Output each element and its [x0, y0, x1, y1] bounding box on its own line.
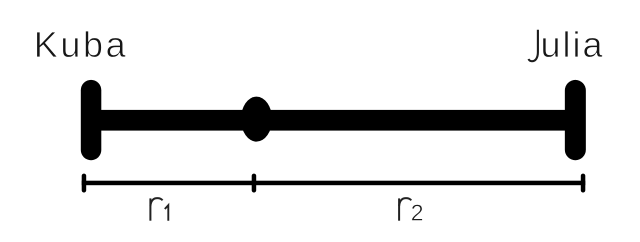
left tick: [82, 174, 87, 193]
label r1 subscript 1: [165, 205, 169, 221]
label r1: [150, 198, 162, 221]
right end cap: [565, 80, 586, 160]
svg-text:Kuba: Kuba: [34, 24, 127, 65]
label Julia (right mass name): [529, 30, 538, 61]
middle tick (pivot position): [252, 174, 257, 193]
right tick: [581, 174, 586, 193]
lever bar: [91, 110, 575, 131]
pivot ellipse: [241, 97, 272, 142]
svg-text:ulia: ulia: [541, 24, 604, 65]
dimension line: [82, 181, 586, 186]
label r2: [399, 198, 411, 221]
left end cap: [81, 80, 102, 160]
svg-text:2: 2: [411, 200, 424, 226]
